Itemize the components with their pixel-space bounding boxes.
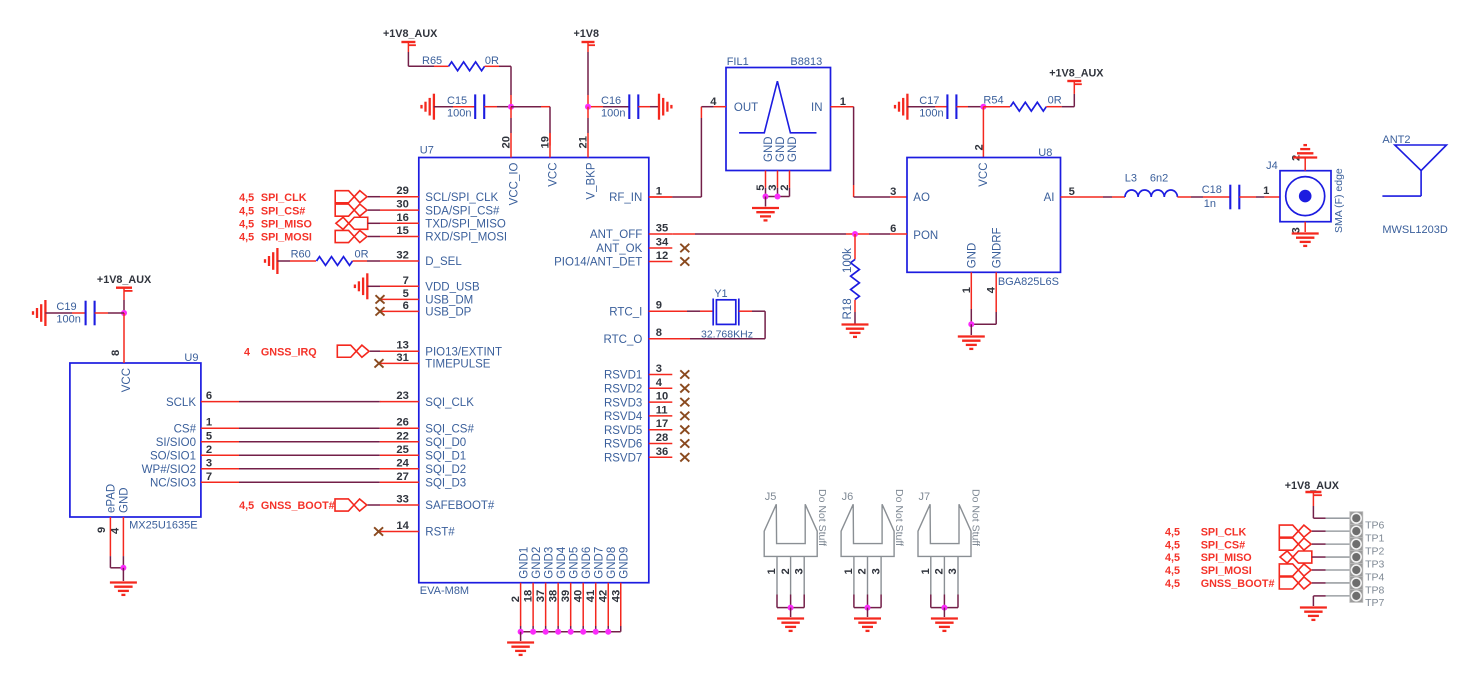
- svg-text:26: 26: [396, 417, 408, 429]
- ground for C15: [433, 94, 435, 120]
- svg-text:SDA/SPI_CS#: SDA/SPI_CS#: [425, 205, 500, 217]
- svg-text:3: 3: [656, 363, 662, 375]
- svg-text:ANT2: ANT2: [1382, 134, 1410, 146]
- net label SPI_CS# at TP2: [1279, 538, 1311, 550]
- svg-text:100n: 100n: [447, 107, 471, 119]
- svg-text:C19: C19: [56, 301, 76, 313]
- svg-text:RSVD3: RSVD3: [604, 397, 642, 409]
- svg-text:PON: PON: [913, 230, 938, 242]
- U9 GND pins wiring: [109, 517, 111, 556]
- crystal Y1 32.768KHz: [712, 299, 714, 326]
- svg-text:RSVD4: RSVD4: [604, 411, 643, 423]
- svg-text:4,5: 4,5: [1165, 565, 1180, 577]
- svg-text:SQI_D2: SQI_D2: [425, 464, 466, 476]
- U7 bottom GND pin stubs: [520, 583, 522, 626]
- svg-text:GND2: GND2: [531, 547, 543, 579]
- svg-text:GND: GND: [775, 136, 787, 162]
- svg-text:B8813: B8813: [790, 56, 822, 68]
- svg-text:GND8: GND8: [606, 547, 618, 579]
- ground for C19: [44, 300, 46, 326]
- net label SPI_CS# with sheet connector arrow: [335, 204, 367, 216]
- svg-text:+1V8_AUX: +1V8_AUX: [383, 28, 438, 40]
- wire node to pin 20: [510, 107, 512, 118]
- svg-text:USB_DP: USB_DP: [425, 307, 471, 319]
- wire RF_IN to FIL1 OUT: [649, 196, 673, 198]
- svg-text:IN: IN: [811, 102, 823, 114]
- svg-text:R18: R18: [842, 298, 854, 319]
- svg-text:Do Not Stuff: Do Not Stuff: [970, 489, 982, 546]
- svg-text:ePAD: ePAD: [106, 484, 118, 513]
- svg-text:7: 7: [403, 275, 409, 287]
- svg-text:+1V8: +1V8: [574, 28, 600, 40]
- ground below J4: [1292, 232, 1319, 234]
- svg-text:16: 16: [396, 212, 408, 224]
- resistor R54 0R: [983, 106, 1010, 108]
- ground below U8: [958, 335, 985, 337]
- wire crystal to RTC_O: [739, 310, 752, 312]
- svg-text:+1V8_AUX: +1V8_AUX: [1285, 480, 1340, 492]
- wires arrows to test points: [1312, 530, 1326, 532]
- svg-text:TP6: TP6: [1365, 520, 1384, 532]
- IC U7 EVA-M8M body: [419, 158, 649, 583]
- svg-text:R54: R54: [983, 94, 1003, 106]
- ground for R60: [276, 248, 278, 274]
- svg-text:SCL/SPI_CLK: SCL/SPI_CLK: [425, 192, 498, 204]
- resistor R18 100k: [854, 234, 856, 259]
- wire +1V8 to V_BKP node: [587, 42, 589, 52]
- FIL1 pin stubs: [714, 106, 726, 108]
- svg-text:1: 1: [843, 568, 855, 574]
- svg-text:13: 13: [396, 340, 408, 352]
- ground below U9: [110, 581, 137, 583]
- ground for C16: [658, 94, 660, 120]
- wire TP7 to ground: [1326, 595, 1350, 597]
- ground for VDD_USB: [366, 273, 368, 299]
- svg-text:4,5: 4,5: [1165, 578, 1180, 590]
- svg-text:J4: J4: [1266, 160, 1278, 172]
- svg-text:ANT_OK: ANT_OK: [596, 243, 642, 255]
- svg-text:SQI_D1: SQI_D1: [425, 451, 466, 463]
- connector J4 SMA: [1280, 171, 1331, 222]
- svg-text:GNDRF: GNDRF: [991, 227, 1003, 268]
- wire L3 to C18: [1177, 196, 1191, 198]
- junction V_BKP node: [585, 104, 591, 110]
- wire node to pin 21: [587, 107, 589, 118]
- svg-text:0R: 0R: [485, 55, 499, 67]
- svg-text:PIO13/EXTINT: PIO13/EXTINT: [425, 346, 502, 358]
- svg-text:2: 2: [780, 568, 792, 574]
- svg-text:U9: U9: [184, 352, 198, 364]
- svg-text:8: 8: [110, 350, 122, 356]
- svg-text:15: 15: [396, 225, 408, 237]
- svg-text:11: 11: [656, 404, 668, 416]
- wire VDD_USB: [367, 285, 380, 287]
- svg-text:+1V8_AUX: +1V8_AUX: [97, 274, 152, 286]
- svg-text:TP1: TP1: [1365, 532, 1384, 544]
- svg-text:RSVD6: RSVD6: [604, 439, 642, 451]
- svg-text:17: 17: [656, 418, 668, 430]
- junction U8 VCC node: [980, 104, 986, 110]
- U9 right pin stubs and SQI wires to U7: [201, 401, 239, 403]
- svg-text:TP7: TP7: [1365, 597, 1384, 609]
- svg-text:Do Not Stuff: Do Not Stuff: [893, 489, 905, 546]
- ground below J5: [777, 617, 804, 619]
- svg-text:+1V8_AUX: +1V8_AUX: [1049, 68, 1104, 80]
- svg-text:RST#: RST#: [425, 527, 455, 539]
- svg-text:4,5: 4,5: [1165, 552, 1180, 564]
- svg-text:RTC_I: RTC_I: [609, 306, 642, 318]
- J5 ground wiring: [776, 595, 778, 608]
- svg-text:D_SEL: D_SEL: [425, 256, 462, 268]
- svg-text:J7: J7: [919, 491, 931, 503]
- svg-text:31: 31: [396, 352, 408, 364]
- IC U8 BGA825L6S body: [907, 158, 1061, 273]
- svg-text:C17: C17: [919, 95, 939, 107]
- svg-text:24: 24: [396, 457, 409, 469]
- svg-text:SPI_CLK: SPI_CLK: [1201, 526, 1247, 538]
- capacitor C16 100n: [591, 106, 603, 108]
- svg-text:3: 3: [870, 568, 882, 574]
- svg-text:GND5: GND5: [568, 547, 580, 579]
- svg-text:VCC_IO: VCC_IO: [509, 162, 521, 205]
- svg-text:C16: C16: [601, 95, 621, 107]
- svg-text:27: 27: [396, 471, 408, 483]
- svg-text:TP3: TP3: [1365, 558, 1384, 570]
- test point pads column: [1350, 512, 1363, 525]
- no-connect X marks on U7 left pins: [376, 295, 385, 303]
- svg-text:32: 32: [396, 250, 408, 262]
- svg-text:VCC: VCC: [121, 368, 133, 392]
- svg-text:SPI_CLK: SPI_CLK: [261, 192, 307, 204]
- svg-text:4,5: 4,5: [239, 500, 254, 512]
- svg-text:ANT_OFF: ANT_OFF: [590, 229, 642, 241]
- svg-text:4,5: 4,5: [1165, 539, 1180, 551]
- ground for C17: [906, 94, 908, 120]
- svg-text:SPI_MISO: SPI_MISO: [261, 219, 312, 231]
- net label SPI_MISO at TP3: [1280, 551, 1312, 563]
- svg-text:8: 8: [656, 327, 662, 339]
- svg-text:GND6: GND6: [581, 547, 593, 579]
- wire +1V8_AUX to TP6: [1313, 517, 1325, 519]
- svg-text:6: 6: [403, 300, 409, 312]
- svg-text:36: 36: [656, 446, 668, 458]
- junction dots on GND rail: [518, 629, 524, 635]
- net label SPI_CLK at TP1: [1279, 525, 1311, 537]
- svg-text:14: 14: [396, 520, 409, 532]
- svg-text:10: 10: [656, 391, 668, 403]
- svg-text:GND: GND: [119, 487, 131, 513]
- svg-text:1: 1: [920, 568, 932, 574]
- net label SPI_MOSI at TP4: [1279, 564, 1311, 576]
- svg-text:34: 34: [656, 237, 669, 249]
- svg-text:35: 35: [656, 223, 668, 235]
- svg-text:6: 6: [890, 223, 896, 235]
- U7 GND pins wiring to ground rail: [520, 626, 522, 632]
- svg-text:J5: J5: [765, 491, 777, 503]
- svg-text:SMA (F) edge: SMA (F) edge: [1333, 168, 1345, 233]
- J6 ground wiring: [853, 595, 855, 608]
- svg-text:SPI_CS#: SPI_CS#: [1201, 539, 1245, 551]
- svg-text:SI/SIO0: SI/SIO0: [156, 437, 196, 449]
- svg-text:TXD/SPI_MISO: TXD/SPI_MISO: [425, 219, 506, 231]
- svg-text:J6: J6: [842, 491, 854, 503]
- svg-text:1: 1: [656, 186, 662, 198]
- svg-text:VCC: VCC: [548, 163, 560, 187]
- svg-text:22: 22: [396, 430, 408, 442]
- junction C19 node: [121, 310, 127, 316]
- svg-text:100n: 100n: [56, 313, 80, 325]
- net label SPI_CLK with sheet connector arrow: [335, 191, 367, 203]
- svg-text:GNSS_BOOT#: GNSS_BOOT#: [1201, 578, 1275, 590]
- svg-text:SCLK: SCLK: [166, 397, 196, 409]
- inductor L3 6n2: [1125, 190, 1177, 197]
- svg-text:RSVD1: RSVD1: [604, 370, 642, 382]
- ground below J6: [854, 617, 881, 619]
- svg-text:29: 29: [396, 185, 408, 197]
- svg-text:1: 1: [1263, 185, 1269, 197]
- svg-text:GNSS_BOOT#: GNSS_BOOT#: [261, 500, 335, 512]
- svg-text:R65: R65: [422, 55, 442, 67]
- svg-text:GNSS_IRQ: GNSS_IRQ: [261, 346, 317, 358]
- net label SPI_MOSI with sheet connector arrow: [335, 230, 367, 242]
- wire RTC_I to crystal: [649, 310, 687, 312]
- svg-text:4: 4: [656, 377, 663, 389]
- ground below U7: [507, 641, 534, 643]
- svg-text:5: 5: [403, 288, 409, 300]
- svg-text:GND: GND: [763, 136, 775, 162]
- wire node to pin 19: [511, 106, 541, 108]
- junction PON node: [852, 231, 858, 237]
- U9 VCC pin stub: [123, 327, 125, 363]
- svg-text:C18: C18: [1202, 184, 1222, 196]
- svg-text:4,5: 4,5: [1165, 526, 1180, 538]
- svg-text:4,5: 4,5: [239, 192, 254, 204]
- svg-text:FIL1: FIL1: [727, 56, 749, 68]
- svg-text:GND: GND: [787, 136, 799, 162]
- U8 GND pins wiring: [970, 272, 972, 309]
- ground below J7: [931, 617, 958, 619]
- svg-text:BGA825L6S: BGA825L6S: [998, 276, 1059, 288]
- svg-text:GND: GND: [966, 243, 978, 269]
- svg-text:4: 4: [244, 346, 250, 358]
- svg-text:TP2: TP2: [1365, 545, 1384, 557]
- svg-text:2: 2: [974, 144, 986, 150]
- svg-text:SPI_MOSI: SPI_MOSI: [261, 232, 312, 244]
- ground below TP7: [1300, 606, 1327, 608]
- svg-text:RF_IN: RF_IN: [609, 192, 642, 204]
- svg-text:SQI_CLK: SQI_CLK: [425, 397, 474, 409]
- wire SPI arrows to pins: [368, 196, 380, 198]
- svg-text:4,5: 4,5: [239, 219, 254, 231]
- capacitor C15 100n: [434, 106, 453, 108]
- svg-text:23: 23: [396, 390, 408, 402]
- svg-text:33: 33: [396, 494, 408, 506]
- svg-text:GND1: GND1: [518, 547, 530, 579]
- wire U8 AI out: [1061, 196, 1104, 198]
- svg-text:9: 9: [96, 527, 108, 533]
- svg-text:TP8: TP8: [1365, 584, 1384, 596]
- svg-text:1n: 1n: [1204, 198, 1216, 210]
- svg-text:SPI_CS#: SPI_CS#: [261, 205, 305, 217]
- J4 pin 2 stub to ground above: [1304, 159, 1306, 171]
- connector J6 (Do Not Stuff): [841, 504, 894, 556]
- svg-text:GND4: GND4: [556, 546, 568, 579]
- svg-text:C15: C15: [447, 95, 467, 107]
- svg-text:R60: R60: [291, 249, 311, 261]
- svg-text:3: 3: [206, 457, 212, 469]
- svg-text:WP#/SIO2: WP#/SIO2: [142, 464, 196, 476]
- U7 top pin stubs: [510, 133, 512, 158]
- capacitor C18 1n: [1229, 185, 1231, 210]
- svg-text:CS#: CS#: [174, 423, 197, 435]
- ground below FIL1: [752, 207, 779, 209]
- U7 right pin stubs: [649, 196, 673, 198]
- svg-text:30: 30: [396, 199, 408, 211]
- svg-text:USB_DM: USB_DM: [425, 295, 473, 307]
- svg-text:RXD/SPI_MOSI: RXD/SPI_MOSI: [425, 232, 507, 244]
- svg-text:SO/SIO1: SO/SIO1: [150, 451, 196, 463]
- capacitor C19 100n: [45, 312, 72, 314]
- svg-text:2: 2: [206, 444, 212, 456]
- svg-text:100k: 100k: [842, 248, 854, 273]
- filter FIL1 B8813 body: [726, 68, 831, 171]
- svg-text:GND9: GND9: [618, 547, 630, 579]
- wire FIL1 IN to U8 AO: [853, 107, 855, 185]
- wire +1V8_AUX to R65: [407, 42, 409, 52]
- svg-text:5: 5: [1069, 186, 1075, 198]
- connector J5 (Do Not Stuff): [764, 504, 817, 556]
- J4 pin 3 stub to ground below: [1304, 222, 1306, 232]
- svg-text:RSVD7: RSVD7: [604, 453, 642, 465]
- svg-text:100n: 100n: [919, 107, 943, 119]
- svg-text:6: 6: [206, 390, 212, 402]
- svg-text:SPI_MISO: SPI_MISO: [1201, 552, 1252, 564]
- svg-text:L3: L3: [1125, 172, 1137, 184]
- svg-text:12: 12: [656, 250, 668, 262]
- connector J7 (Do Not Stuff): [918, 504, 971, 556]
- svg-text:SAFEBOOT#: SAFEBOOT#: [425, 500, 495, 512]
- wire R65 to VCC_IO node: [485, 65, 499, 67]
- svg-text:25: 25: [396, 444, 408, 456]
- ground below R18: [842, 323, 869, 325]
- ground above J4: [1293, 156, 1317, 158]
- capacitor C17 100n: [907, 106, 935, 108]
- svg-text:3: 3: [890, 186, 896, 198]
- J7 ground wiring: [930, 595, 932, 608]
- svg-text:4,5: 4,5: [239, 232, 254, 244]
- svg-text:GND7: GND7: [593, 547, 605, 579]
- svg-text:VCC: VCC: [978, 163, 990, 187]
- svg-text:AI: AI: [1044, 192, 1055, 204]
- svg-text:SQI_CS#: SQI_CS#: [425, 423, 474, 435]
- svg-text:2: 2: [857, 568, 869, 574]
- svg-text:EVA-M8M: EVA-M8M: [420, 585, 469, 597]
- resistor R60 0R: [277, 260, 290, 262]
- svg-text:4: 4: [109, 527, 121, 534]
- wire node to U8 VCC pin: [982, 107, 984, 158]
- junction VCC_IO node: [508, 104, 514, 110]
- svg-text:9: 9: [656, 300, 662, 312]
- svg-text:0R: 0R: [355, 249, 369, 261]
- FIL1 GND net wires and junctions: [765, 188, 767, 197]
- svg-text:2: 2: [934, 568, 946, 574]
- svg-text:RTC_O: RTC_O: [604, 334, 643, 346]
- IC U9 MX25U1635E body: [70, 363, 201, 517]
- no-connect X marks on U7 right pins: [680, 244, 689, 252]
- svg-text:Do Not Stuff: Do Not Stuff: [816, 489, 828, 546]
- svg-text:SQI_D3: SQI_D3: [425, 478, 466, 490]
- svg-text:1: 1: [766, 568, 778, 574]
- svg-text:100n: 100n: [601, 107, 625, 119]
- svg-text:0R: 0R: [1048, 94, 1062, 106]
- svg-text:28: 28: [656, 432, 668, 444]
- net label SPI_MISO with sheet connector arrow: [336, 217, 368, 229]
- wire R60 to D_SEL: [367, 260, 380, 262]
- resistor R65 0R: [449, 62, 485, 71]
- svg-text:U7: U7: [420, 145, 434, 157]
- svg-text:6n2: 6n2: [1150, 172, 1168, 184]
- svg-text:7: 7: [206, 471, 212, 483]
- U7 left pin stubs: [380, 196, 419, 198]
- svg-text:VDD_USB: VDD_USB: [425, 282, 480, 294]
- svg-text:3: 3: [793, 568, 805, 574]
- svg-text:5: 5: [206, 430, 212, 442]
- svg-text:AO: AO: [913, 192, 930, 204]
- net label GNSS_BOOT# with sheet connector arrow: [335, 499, 367, 511]
- svg-text:OUT: OUT: [734, 102, 758, 114]
- net label GNSS_BOOT# at TP8: [1279, 577, 1311, 589]
- svg-text:Y1: Y1: [714, 288, 727, 300]
- svg-text:TIMEPULSE: TIMEPULSE: [425, 359, 491, 371]
- svg-text:GND3: GND3: [543, 547, 555, 579]
- svg-text:3: 3: [947, 568, 959, 574]
- svg-text:PIO14/ANT_DET: PIO14/ANT_DET: [554, 257, 642, 269]
- svg-text:SPI_MOSI: SPI_MOSI: [1201, 565, 1252, 577]
- svg-text:RSVD2: RSVD2: [604, 384, 642, 396]
- svg-text:MWSL1203D: MWSL1203D: [1382, 224, 1447, 236]
- svg-text:NC/SIO3: NC/SIO3: [150, 478, 196, 490]
- svg-text:1: 1: [206, 417, 212, 429]
- svg-text:TP4: TP4: [1365, 571, 1384, 583]
- svg-text:SQI_D0: SQI_D0: [425, 437, 466, 449]
- svg-text:RSVD5: RSVD5: [604, 425, 642, 437]
- svg-text:MX25U1635E: MX25U1635E: [129, 520, 198, 532]
- svg-text:U8: U8: [1038, 147, 1052, 159]
- net label GNSS_IRQ with sheet connector arrow: [337, 345, 369, 357]
- wire C18 to J4: [1239, 196, 1256, 198]
- svg-text:4,5: 4,5: [239, 205, 254, 217]
- svg-text:V_BKP: V_BKP: [586, 162, 598, 199]
- wire ANT_OFF to U8 PON: [672, 233, 695, 235]
